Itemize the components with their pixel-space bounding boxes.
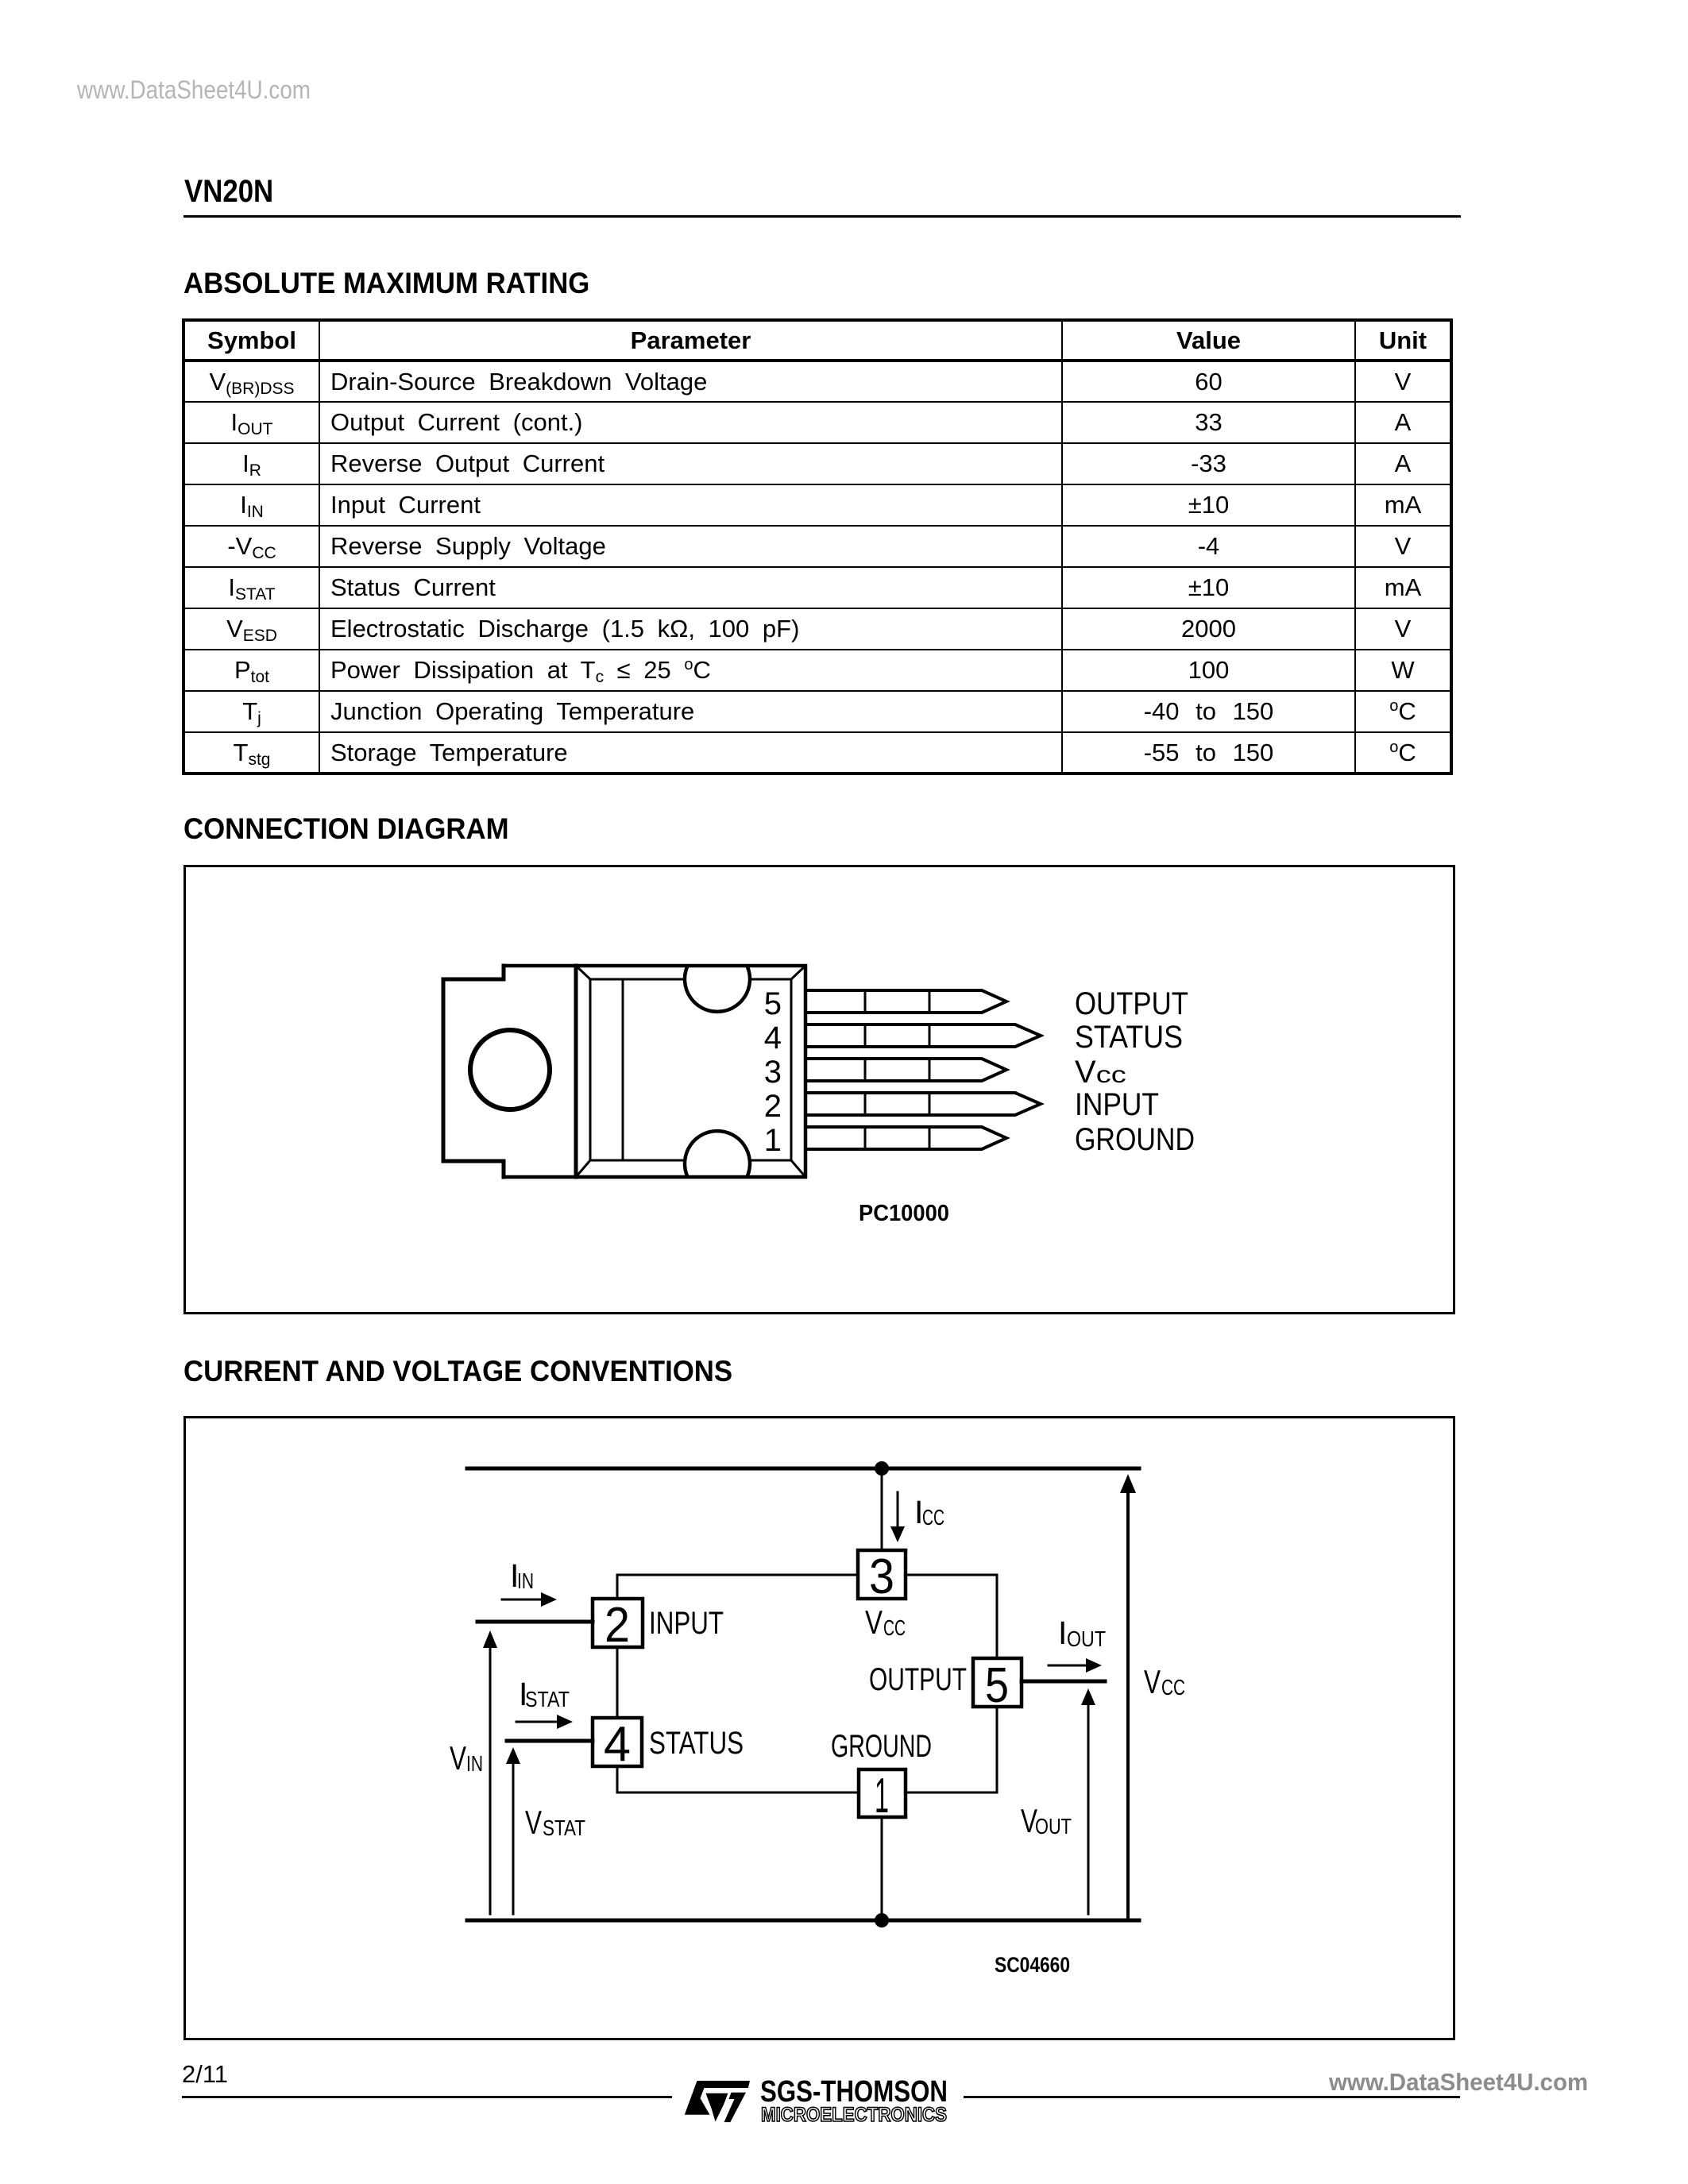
svg-text:INPUT: INPUT xyxy=(1075,1087,1159,1122)
svg-text:2: 2 xyxy=(605,1598,630,1653)
pin box 5 xyxy=(973,1658,1022,1707)
svg-text:OUT: OUT xyxy=(1067,1626,1106,1651)
svg-text:CC: CC xyxy=(883,1615,906,1640)
package body left edge xyxy=(574,966,578,1177)
ratings table xyxy=(182,318,1453,775)
pin 1 lead xyxy=(805,1127,1006,1149)
svg-text:Vcc: Vcc xyxy=(1075,1055,1126,1090)
svg-text:1: 1 xyxy=(764,1123,782,1158)
svg-text:CC: CC xyxy=(922,1505,944,1530)
status feed wire xyxy=(507,1739,593,1743)
wire pin4 to pin1 xyxy=(617,1766,859,1792)
SGS-THOMSON wordmark xyxy=(760,2075,948,2126)
svg-text:3: 3 xyxy=(764,1055,782,1090)
svg-text:PC10000: PC10000 xyxy=(859,1201,949,1226)
svg-text:OUT: OUT xyxy=(1035,1814,1072,1839)
svg-text:CC: CC xyxy=(1161,1675,1185,1700)
svg-text:STAT: STAT xyxy=(525,1687,570,1711)
svg-text:V: V xyxy=(1144,1663,1161,1700)
top mold notch xyxy=(685,967,750,1012)
node dot top rail xyxy=(875,1461,889,1476)
Vcc supply rail xyxy=(467,1467,1139,1471)
package body outline xyxy=(504,966,805,1177)
svg-text:V: V xyxy=(525,1804,542,1841)
Iin current arrow xyxy=(502,1599,543,1601)
Icc arrowhead xyxy=(890,1526,905,1542)
Iout arrowhead xyxy=(1086,1658,1102,1673)
svg-text:V: V xyxy=(450,1739,466,1777)
wire pin1 to ground rail xyxy=(881,1817,883,1920)
svg-text:STATUS: STATUS xyxy=(649,1726,744,1761)
connection diagram frame xyxy=(183,865,1455,1314)
svg-text:GROUND: GROUND xyxy=(1075,1122,1195,1157)
svg-text:IN: IN xyxy=(466,1751,483,1776)
node dot ground rail xyxy=(875,1913,889,1927)
pin 5 lead xyxy=(805,990,1006,1013)
wire pin2 to pin3 xyxy=(617,1575,858,1599)
svg-text:OUTPUT: OUTPUT xyxy=(1075,986,1188,1021)
wire rail to pin3 xyxy=(881,1468,883,1550)
doc title xyxy=(184,174,273,210)
Vout voltage arrow xyxy=(1087,1703,1090,1914)
footer rule right xyxy=(964,2096,1460,2098)
Vout arrowhead xyxy=(1081,1688,1095,1705)
Vstat voltage arrow xyxy=(512,1761,515,1914)
Vcc arrowhead xyxy=(1120,1474,1136,1493)
svg-text:INPUT: INPUT xyxy=(649,1606,724,1641)
section heading 3 xyxy=(183,1355,732,1388)
svg-text:IN: IN xyxy=(517,1569,534,1593)
svg-text:SC04660: SC04660 xyxy=(995,1953,1070,1977)
pin box 3 xyxy=(858,1550,906,1599)
Vin arrowhead xyxy=(483,1630,497,1648)
wire pin3 to pin5 xyxy=(906,1575,997,1658)
package body inner mold lines xyxy=(590,979,791,1160)
watermark bottom xyxy=(1329,2068,1588,2097)
ground rail xyxy=(467,1919,1139,1923)
svg-text:I: I xyxy=(1058,1615,1067,1651)
section heading 2 xyxy=(183,812,509,846)
pin box 2 xyxy=(593,1599,643,1647)
svg-text:STAT: STAT xyxy=(543,1815,585,1840)
svg-text:V: V xyxy=(865,1603,883,1641)
body corner chamfers xyxy=(576,966,805,1177)
input feed wire xyxy=(477,1620,593,1624)
conventions frame xyxy=(183,1416,1455,2040)
ST logo T stroke xyxy=(724,2093,747,2122)
Vin voltage arrow xyxy=(489,1646,492,1914)
Icc current arrow xyxy=(897,1492,899,1528)
svg-text:2: 2 xyxy=(764,1089,782,1124)
svg-text:3: 3 xyxy=(869,1549,894,1604)
ST logo middle wedge xyxy=(706,2093,728,2122)
Istat arrowhead xyxy=(557,1715,573,1729)
section heading 1 xyxy=(183,267,589,300)
svg-text:MICROELECTRONICS: MICROELECTRONICS xyxy=(761,2104,947,2126)
Vstat arrowhead xyxy=(506,1747,520,1764)
Vcc voltage arrow xyxy=(1126,1490,1130,1920)
pin 2 lead xyxy=(805,1093,1041,1115)
bottom mold notch xyxy=(685,1131,750,1175)
Iin arrowhead xyxy=(541,1592,557,1607)
svg-text:4: 4 xyxy=(764,1021,782,1055)
pin box 4 xyxy=(593,1718,642,1766)
output feed wire xyxy=(1022,1680,1105,1684)
svg-text:GROUND: GROUND xyxy=(831,1729,932,1764)
svg-text:5: 5 xyxy=(764,986,782,1021)
wire pin2 to pin4 xyxy=(616,1647,619,1718)
Iout current arrow xyxy=(1049,1665,1087,1667)
watermark top xyxy=(77,75,311,105)
footer rule left xyxy=(182,2096,672,2098)
pin 4 lead xyxy=(805,1024,1041,1047)
ST logo S stroke xyxy=(685,2081,750,2115)
svg-text:OUTPUT: OUTPUT xyxy=(869,1662,967,1697)
tab mounting hole xyxy=(470,1030,550,1109)
TO-220 mounting tab xyxy=(443,966,504,1177)
wire pin1 to pin5 xyxy=(906,1707,997,1792)
svg-text:4: 4 xyxy=(604,1717,631,1772)
pin 3 lead xyxy=(805,1059,1006,1081)
svg-text:1: 1 xyxy=(875,1769,889,1823)
Istat current arrow xyxy=(516,1721,558,1723)
svg-text:5: 5 xyxy=(985,1658,1009,1713)
page number xyxy=(182,2060,228,2089)
pin box 1 xyxy=(859,1769,906,1817)
svg-text:STATUS: STATUS xyxy=(1075,1020,1183,1055)
